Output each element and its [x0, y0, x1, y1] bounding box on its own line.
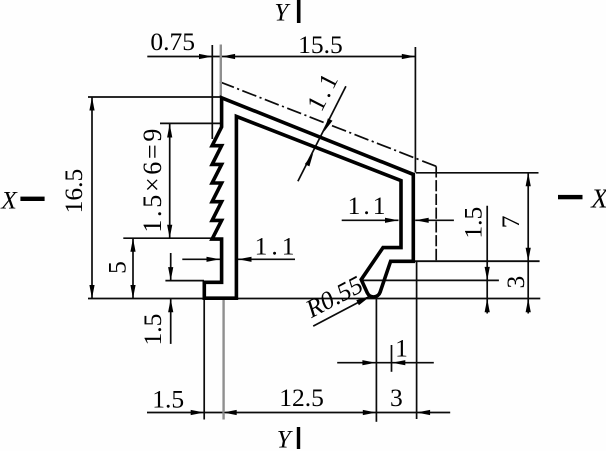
wire extension line tooth valley for 0.75	[211, 45, 213, 139]
wire extension line right wall bottom	[415, 260, 540, 262]
svg-text:0.75: 0.75	[150, 27, 195, 56]
wire extension line 15.5 right	[414, 47, 416, 173]
wire extension line right wall bottom vertical	[416, 262, 418, 419]
svg-text:Y: Y	[274, 0, 291, 26]
arrowheads	[89, 54, 530, 415]
wire top dimension line 0.75 and 15.5	[147, 56, 415, 58]
axis mark X right bar	[558, 195, 583, 199]
svg-text:1.1: 1.1	[348, 191, 389, 220]
svg-text:1.5: 1.5	[459, 207, 488, 239]
wire dimension line 1.5x6=9	[169, 124, 171, 238]
wire extension line serration bottom	[123, 237, 212, 239]
wire dimension line 1.5 right	[486, 206, 488, 314]
wire dimension line 1.5 left lower part	[170, 299, 172, 344]
axis mark Y bottom bar	[297, 427, 300, 449]
construction line left wall surface above corner	[220, 45, 222, 97]
svg-text:X: X	[590, 183, 606, 213]
wire extension line top right corner	[416, 172, 539, 174]
wire bottom extension line full width	[88, 298, 540, 300]
axis mark X left bar	[20, 197, 44, 201]
wire dimension line 1.1 right wall right part	[415, 219, 454, 221]
svg-text:16.5: 16.5	[59, 169, 88, 214]
wire extension line 16.5 top	[88, 96, 221, 98]
wire dimension line 1.1 right wall left part	[342, 219, 399, 221]
wire dimension line 1.1 left wall left part	[182, 258, 220, 260]
svg-text:3: 3	[501, 276, 530, 289]
svg-text:3: 3	[390, 383, 403, 412]
wire leader 1.1 slant thickness	[298, 86, 346, 181]
wire extension line foot step	[165, 280, 204, 282]
wire bottom dimension line 1.5 12.5 3	[147, 412, 450, 414]
svg-text:15.5: 15.5	[298, 30, 343, 59]
axis mark Y top bar	[297, 0, 301, 23]
svg-text:1.5: 1.5	[138, 314, 167, 346]
wire extension line hook tip vertical	[375, 297, 377, 422]
svg-text:X: X	[0, 186, 18, 215]
wire dimension line 1.5 left upper part	[170, 253, 172, 281]
wire extension line serration top	[160, 122, 221, 124]
wire extension line hook vertex level	[363, 279, 499, 281]
phantom dashed vertical of mating slat	[435, 166, 437, 260]
wire extension line foot outer vertical	[203, 299, 205, 420]
wire dimension line 7 and 3 right	[527, 173, 529, 314]
wire dimension line 1.1 left wall right part	[238, 258, 295, 260]
wire extension line hook corner short	[391, 345, 393, 372]
svg-text:1.5: 1.5	[152, 385, 184, 414]
wire dimension line 1	[337, 362, 434, 364]
svg-text:1.1: 1.1	[301, 66, 345, 116]
svg-text:1: 1	[395, 334, 408, 363]
svg-text:5: 5	[103, 261, 132, 274]
wire dimension line 16.5	[91, 97, 93, 299]
phantom dash-dot line of mating slat	[220, 82, 436, 166]
svg-text:12.5: 12.5	[279, 383, 324, 412]
construction line left wall surface below profile	[222, 300, 224, 420]
svg-text:Y: Y	[277, 427, 294, 451]
wire leader R0.55	[313, 296, 371, 326]
wire dimension line 5	[132, 238, 134, 298]
svg-text:7: 7	[496, 215, 525, 228]
profile outline of slat cross-section	[204, 98, 413, 298]
svg-text:1.5×6=9: 1.5×6=9	[138, 126, 167, 233]
svg-text:1.1: 1.1	[255, 232, 299, 261]
